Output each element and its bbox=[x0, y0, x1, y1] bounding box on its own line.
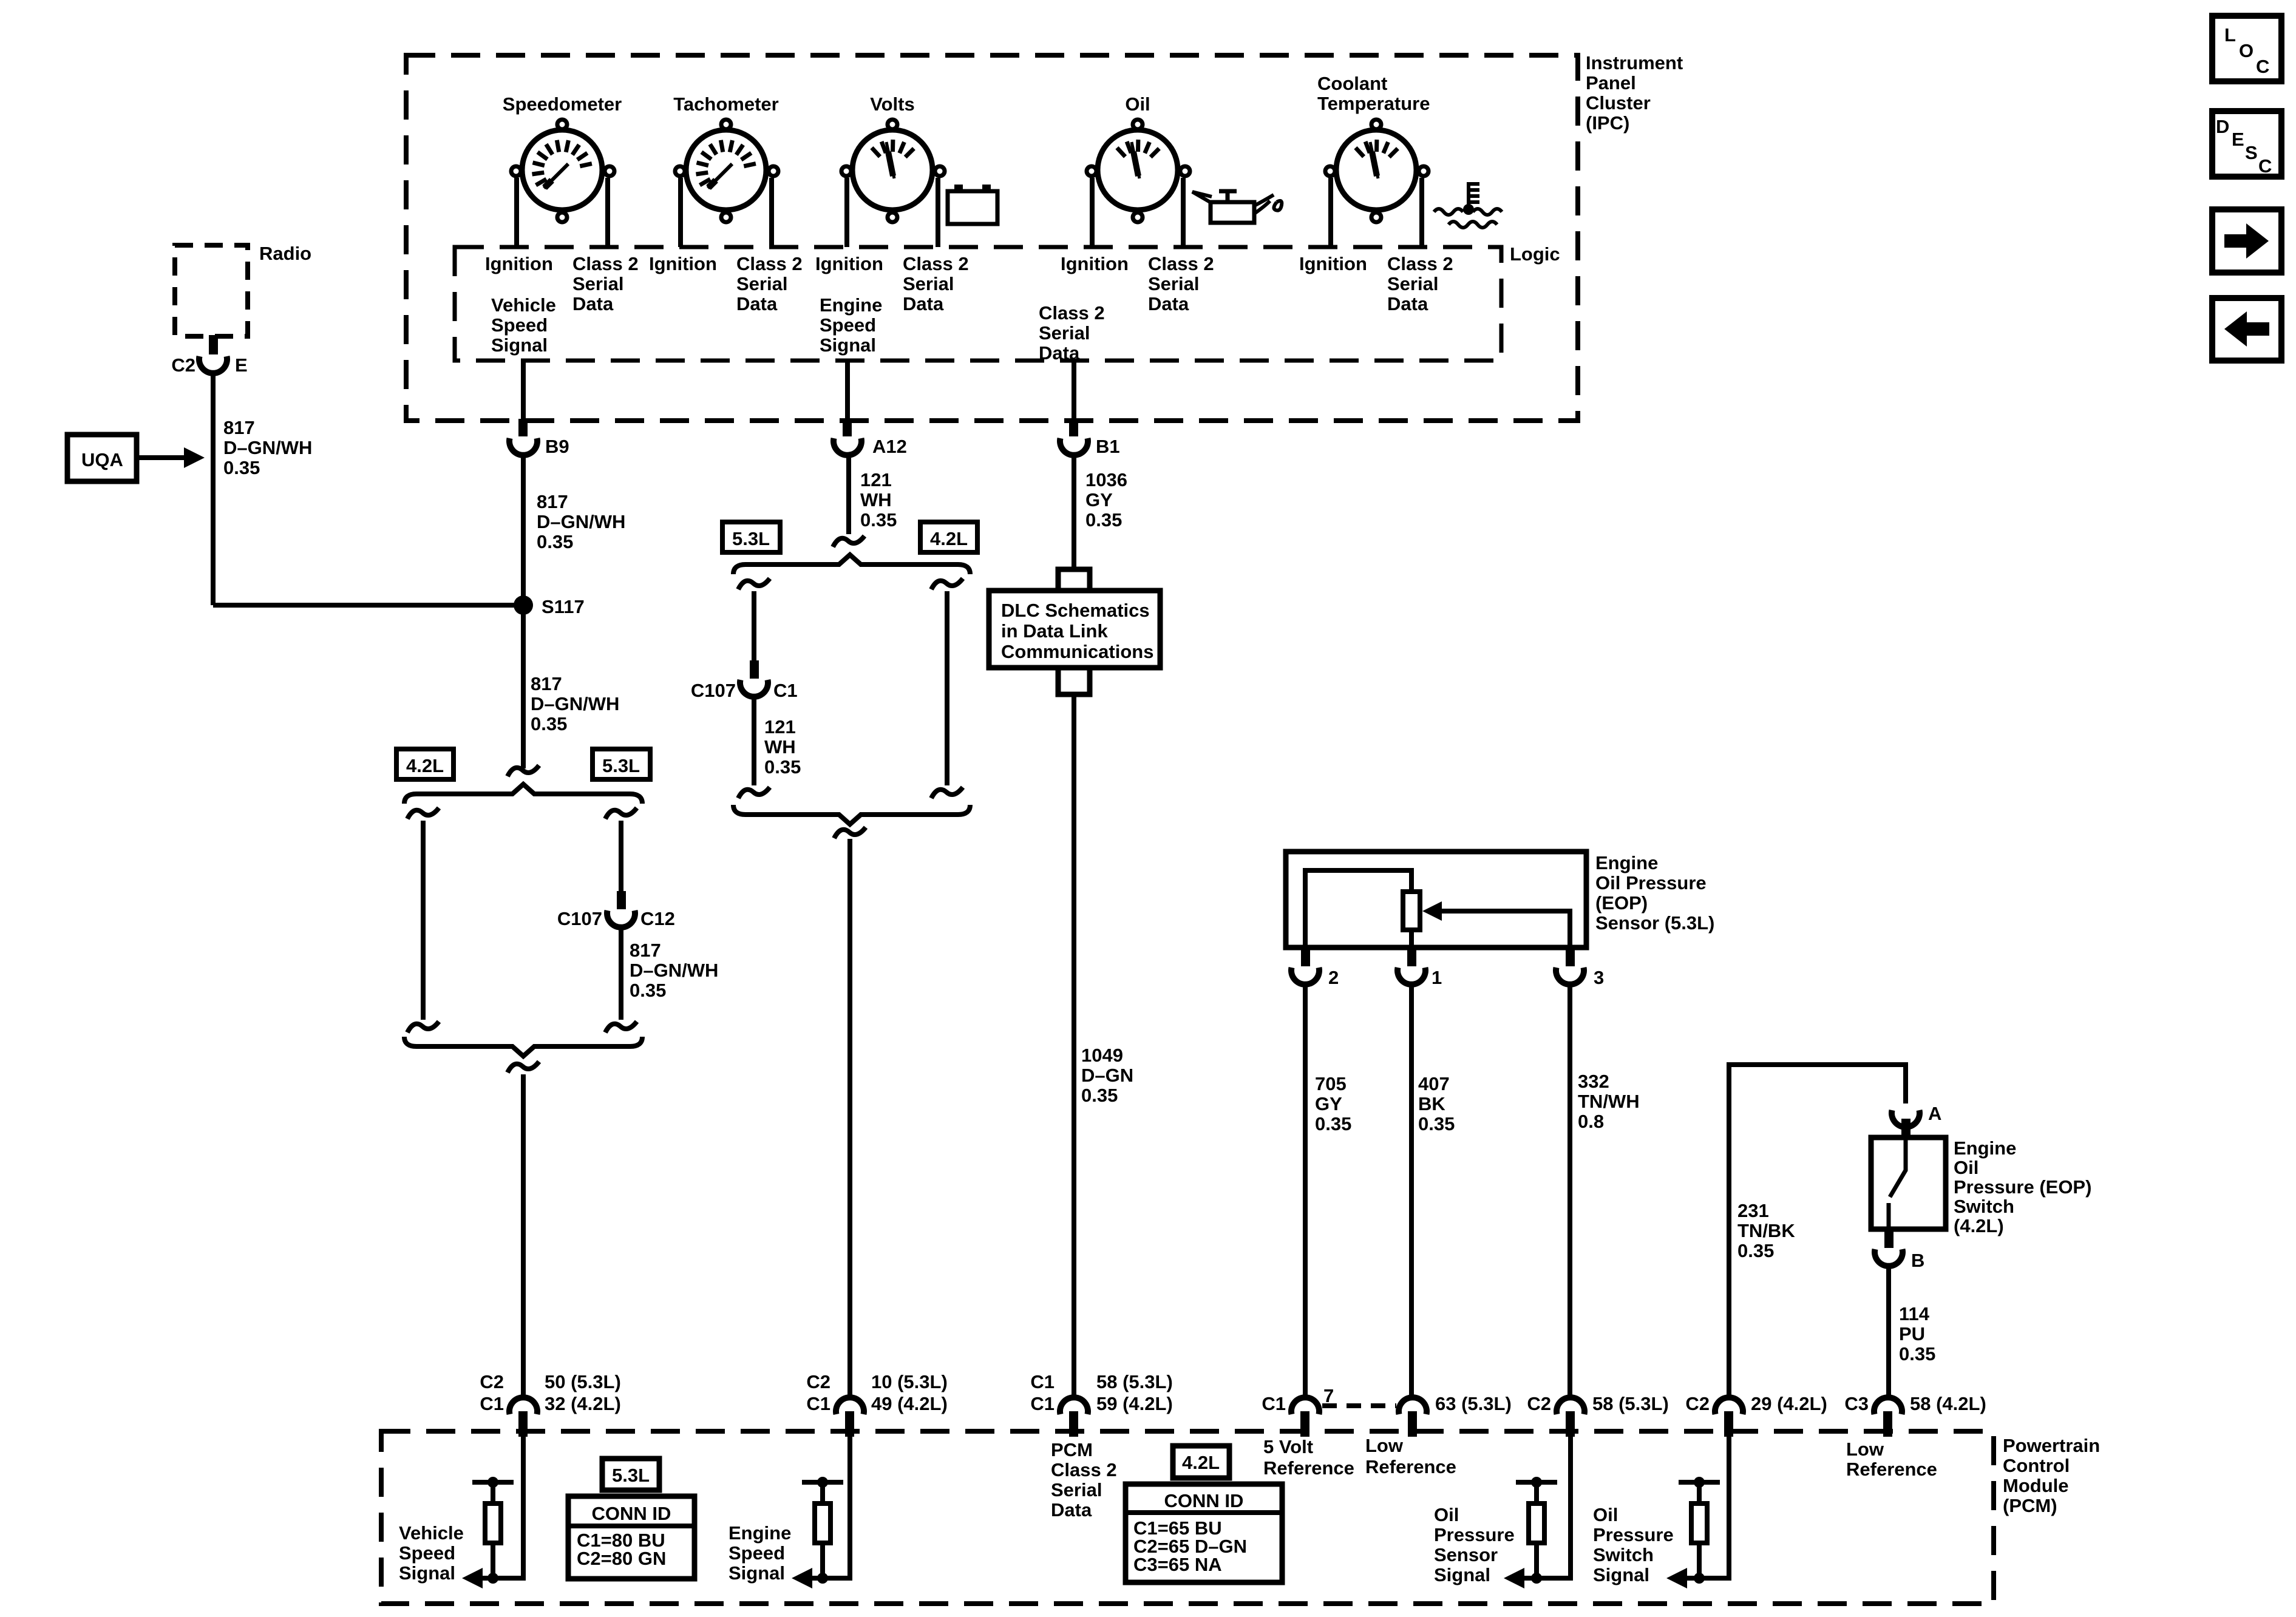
connector pin 1 bbox=[1398, 967, 1442, 988]
svg-text:C1: C1 bbox=[480, 1393, 504, 1414]
svg-text:58 (5.3L): 58 (5.3L) bbox=[1096, 1371, 1173, 1392]
svg-text:Control: Control bbox=[2003, 1455, 2070, 1476]
connector C107 pin C1 bbox=[691, 680, 798, 701]
svg-text:121: 121 bbox=[764, 716, 796, 737]
svg-text:A12: A12 bbox=[872, 436, 907, 457]
svg-text:3: 3 bbox=[1594, 967, 1604, 988]
DLC top bracket bbox=[1058, 569, 1090, 591]
svg-text:(4.2L): (4.2L) bbox=[1954, 1215, 2004, 1236]
svg-text:Low: Low bbox=[1365, 1435, 1404, 1456]
svg-text:C2: C2 bbox=[171, 354, 195, 376]
gauge Coolant Temperature bbox=[1317, 73, 1430, 247]
label 332 TN/WH 0.8 bbox=[1578, 1071, 1640, 1132]
svg-text:C12: C12 bbox=[640, 908, 675, 929]
resistor network (engine speed) bbox=[802, 1477, 843, 1584]
label Vehicle Speed Signal (IPC) bbox=[491, 294, 556, 356]
wire VSS inside PCM bbox=[469, 1437, 523, 1578]
svg-text:B9: B9 bbox=[545, 436, 569, 457]
svg-text:Oil Pressure: Oil Pressure bbox=[1595, 872, 1707, 893]
gauge Speedometer bbox=[503, 93, 622, 247]
connector pin 3 bbox=[1556, 967, 1604, 988]
svg-text:Serial: Serial bbox=[1387, 273, 1438, 294]
svg-text:332: 332 bbox=[1578, 1071, 1609, 1092]
svg-text:5.3L: 5.3L bbox=[612, 1465, 650, 1486]
connector pin stub 7 bbox=[1300, 1411, 1309, 1437]
svg-text:D–GN: D–GN bbox=[1081, 1065, 1133, 1086]
svg-text:Low: Low bbox=[1846, 1439, 1884, 1460]
wire 114 PU bbox=[1886, 1266, 1891, 1397]
svg-text:231: 231 bbox=[1737, 1200, 1769, 1221]
PCM label bbox=[2003, 1435, 2100, 1516]
svg-text:Data: Data bbox=[903, 293, 944, 314]
svg-text:B: B bbox=[1911, 1250, 1924, 1271]
svg-text:Data: Data bbox=[1051, 1499, 1092, 1520]
resistor network (oil pressure sensor) bbox=[1516, 1477, 1557, 1584]
svg-text:5 Volt: 5 Volt bbox=[1263, 1436, 1313, 1457]
svg-text:114: 114 bbox=[1899, 1303, 1930, 1324]
svg-text:D–GN/WH: D–GN/WH bbox=[531, 693, 619, 714]
wire ESS to PCM bbox=[847, 839, 852, 1397]
svg-text:C107: C107 bbox=[691, 680, 736, 701]
wire break below left split bbox=[508, 1062, 539, 1073]
svg-text:L: L bbox=[2224, 24, 2236, 46]
svg-text:Oil: Oil bbox=[1125, 93, 1150, 115]
svg-text:Speedometer: Speedometer bbox=[503, 93, 622, 115]
svg-text:Panel: Panel bbox=[1586, 72, 1636, 93]
svg-text:WH: WH bbox=[764, 736, 796, 758]
option box 5.3L (PCM left) bbox=[602, 1459, 659, 1490]
label 817 D-GN/WH 0.35 (S117) bbox=[531, 673, 619, 734]
svg-text:Class 2: Class 2 bbox=[736, 253, 803, 274]
svg-text:0.35: 0.35 bbox=[1737, 1240, 1774, 1261]
svg-text:50 (5.3L): 50 (5.3L) bbox=[545, 1371, 621, 1392]
wire oil pressure sensor signal inside PCM bbox=[1510, 1437, 1571, 1578]
svg-text:Vehicle: Vehicle bbox=[399, 1522, 464, 1544]
svg-text:Data: Data bbox=[572, 293, 614, 314]
svg-text:Ignition: Ignition bbox=[1299, 253, 1367, 274]
EOP sensor internal wiring bbox=[1305, 870, 1411, 947]
svg-text:Oil: Oil bbox=[1593, 1504, 1618, 1525]
label 121 WH 0.35 (C1) bbox=[764, 716, 801, 778]
wire 1049 DLC to PCM bbox=[1072, 694, 1076, 1397]
EOP sensor label bbox=[1595, 852, 1714, 934]
svg-text:Speed: Speed bbox=[399, 1542, 455, 1564]
connector pin 63 bbox=[1399, 1393, 1512, 1414]
svg-text:817: 817 bbox=[531, 673, 562, 694]
svg-text:Sensor: Sensor bbox=[1434, 1544, 1498, 1565]
wire oil pressure switch signal inside PCM bbox=[1673, 1437, 1729, 1578]
EOP sensor resistor bbox=[1403, 892, 1420, 930]
connector C3 pin 58 bbox=[1844, 1393, 1986, 1414]
svg-text:Coolant: Coolant bbox=[1317, 73, 1387, 94]
svg-text:E: E bbox=[2232, 129, 2244, 150]
svg-text:(IPC): (IPC) bbox=[1586, 112, 1629, 134]
wire 817 S117 down bbox=[521, 605, 526, 768]
wire Engine Speed Signal inside IPC bbox=[845, 361, 850, 420]
option box 4.2L (middle split) bbox=[920, 522, 977, 552]
wire break 4.2L branch top (middle) bbox=[931, 578, 963, 589]
svg-text:Serial: Serial bbox=[1051, 1479, 1102, 1500]
wire break 5.3L branch bottom (middle) bbox=[738, 787, 770, 798]
label 817 D-GN/WH 0.35 (C12) bbox=[630, 940, 718, 1001]
svg-text:D–GN/WH: D–GN/WH bbox=[223, 437, 312, 458]
svg-text:C3: C3 bbox=[1844, 1393, 1869, 1414]
wire 407 BK bbox=[1409, 985, 1414, 1397]
svg-text:0.8: 0.8 bbox=[1578, 1111, 1604, 1132]
left arrow icon box bbox=[2212, 298, 2281, 361]
UQA arrow bbox=[137, 447, 205, 468]
dashed jumper pin7 to pin63 bbox=[1322, 1403, 1396, 1408]
connector A12 bbox=[834, 436, 907, 457]
connector C2/C1 pins 50/32 bbox=[480, 1371, 620, 1414]
wire break below middle split bbox=[834, 827, 866, 838]
wire VSS to PCM bbox=[521, 1074, 526, 1397]
svg-text:CONN ID: CONN ID bbox=[592, 1503, 671, 1524]
svg-text:O: O bbox=[2239, 40, 2254, 61]
wire break 5.3L branch bottom bbox=[605, 1022, 637, 1032]
svg-text:0.35: 0.35 bbox=[223, 457, 260, 478]
svg-text:Reference: Reference bbox=[1365, 1456, 1456, 1477]
connector pin C107-C1 bbox=[750, 660, 759, 679]
wire 121 below C1 bbox=[752, 697, 756, 785]
svg-text:Pressure: Pressure bbox=[1593, 1524, 1674, 1545]
svg-text:BK: BK bbox=[1418, 1093, 1445, 1114]
connector C1 pin 7 bbox=[1262, 1385, 1334, 1414]
label 114 PU 0.35 bbox=[1899, 1303, 1935, 1364]
resistor network (oil pressure switch) bbox=[1679, 1477, 1720, 1584]
Engine Oil Pressure (EOP) Switch box bbox=[1871, 1137, 1946, 1229]
connector B1 bbox=[1060, 436, 1120, 457]
svg-text:GY: GY bbox=[1085, 489, 1113, 510]
label Class 2 Serial Data (B1 wire) bbox=[1039, 302, 1105, 364]
EOP switch label bbox=[1954, 1137, 2091, 1236]
svg-text:0.35: 0.35 bbox=[630, 980, 666, 1001]
svg-text:817: 817 bbox=[630, 940, 661, 961]
svg-text:C107: C107 bbox=[557, 908, 602, 929]
svg-text:Speed: Speed bbox=[729, 1542, 785, 1564]
svg-text:Signal: Signal bbox=[1434, 1564, 1490, 1585]
splice S117 bbox=[514, 595, 585, 617]
connector pin 3 stub bbox=[1566, 947, 1575, 966]
svg-text:Pressure (EOP): Pressure (EOP) bbox=[1954, 1176, 2091, 1198]
svg-text:UQA: UQA bbox=[81, 449, 123, 470]
svg-text:Ignition: Ignition bbox=[1061, 253, 1129, 274]
svg-text:Vehicle: Vehicle bbox=[491, 294, 556, 316]
svg-text:Engine: Engine bbox=[1595, 852, 1658, 873]
connector pin stub 29 bbox=[1724, 1411, 1733, 1437]
svg-text:0.35: 0.35 bbox=[1418, 1113, 1455, 1134]
svg-text:817: 817 bbox=[223, 417, 255, 438]
svg-text:A: A bbox=[1928, 1103, 1941, 1124]
Instrument Panel Cluster (IPC) dashed box bbox=[406, 55, 1578, 421]
brace bottom (left split) bbox=[404, 1037, 642, 1056]
connector pin B bbox=[1875, 1249, 1924, 1271]
svg-text:Engine: Engine bbox=[820, 294, 882, 316]
svg-text:C3=65 NA: C3=65 NA bbox=[1133, 1554, 1222, 1575]
svg-text:C1: C1 bbox=[1030, 1393, 1055, 1414]
svg-text:PU: PU bbox=[1899, 1323, 1925, 1344]
label PCM Class 2 Serial Data bbox=[1051, 1439, 1117, 1520]
label Class 2 Serial Data (Coolant) bbox=[1387, 253, 1453, 314]
wire 817 below C12 bbox=[619, 927, 623, 1020]
battery icon bbox=[948, 185, 997, 224]
svg-text:Signal: Signal bbox=[1593, 1564, 1649, 1585]
svg-text:Class 2: Class 2 bbox=[1039, 302, 1105, 324]
wire 231 TN/BK up and across bbox=[1729, 1065, 1906, 1397]
svg-text:0.35: 0.35 bbox=[1315, 1113, 1351, 1134]
gauge Volts bbox=[841, 93, 945, 247]
svg-text:1036: 1036 bbox=[1085, 469, 1127, 490]
svg-text:Signal: Signal bbox=[820, 334, 876, 356]
label Engine Speed Signal (IPC) bbox=[820, 294, 882, 356]
svg-text:C1: C1 bbox=[1262, 1393, 1286, 1414]
label Class 2 Serial Data (Speedometer) bbox=[572, 253, 639, 314]
svg-text:121: 121 bbox=[860, 469, 892, 490]
connector pin C2-E bbox=[209, 335, 218, 354]
connector pin 2 bbox=[1291, 967, 1339, 988]
label 5 Volt Reference bbox=[1263, 1436, 1354, 1479]
wire break above middle split bbox=[833, 536, 864, 547]
svg-text:0.35: 0.35 bbox=[537, 531, 573, 552]
svg-text:Ignition: Ignition bbox=[649, 253, 717, 274]
label 121 WH 0.35 (A12) bbox=[860, 469, 897, 531]
right arrow icon box bbox=[2212, 209, 2281, 273]
svg-text:Switch: Switch bbox=[1954, 1196, 2014, 1217]
svg-text:29 (4.2L): 29 (4.2L) bbox=[1751, 1393, 1827, 1414]
DLC bottom bracket bbox=[1058, 668, 1090, 694]
wire break 4.2L branch top bbox=[407, 808, 439, 819]
wire 121 A12 down bbox=[846, 455, 851, 534]
svg-text:Logic: Logic bbox=[1510, 243, 1560, 265]
connector C2 pin E bbox=[171, 354, 247, 376]
label Oil Pressure Sensor Signal bbox=[1434, 1504, 1515, 1585]
connector pin stub C3-58 bbox=[1883, 1411, 1892, 1437]
connector pin 2 stub bbox=[1301, 947, 1310, 966]
wire ESS inside PCM bbox=[798, 1437, 850, 1578]
wire 5.3L branch upper (left split) bbox=[619, 821, 623, 891]
svg-text:Cluster: Cluster bbox=[1586, 92, 1651, 114]
svg-text:Engine: Engine bbox=[729, 1522, 791, 1544]
connector pin stub 63 bbox=[1408, 1411, 1417, 1437]
svg-text:D: D bbox=[2216, 116, 2229, 137]
connector pin B9 bbox=[518, 419, 528, 436]
svg-text:E: E bbox=[235, 354, 248, 376]
svg-text:Signal: Signal bbox=[399, 1562, 455, 1584]
svg-text:Speed: Speed bbox=[820, 314, 876, 336]
label 1049 D-GN 0.35 bbox=[1081, 1045, 1133, 1106]
wire radio to S117 horizontal bbox=[213, 603, 523, 608]
label Vehicle Speed Signal (PCM) bbox=[399, 1522, 464, 1584]
DESC icon box bbox=[2212, 111, 2281, 177]
svg-text:Communications: Communications bbox=[1001, 641, 1153, 662]
svg-text:49 (4.2L): 49 (4.2L) bbox=[871, 1393, 948, 1414]
wire Class 2 Serial Data inside IPC bbox=[1072, 361, 1076, 420]
oil can icon bbox=[1211, 202, 1254, 223]
connector B9 bbox=[509, 436, 569, 457]
svg-text:7: 7 bbox=[1323, 1385, 1334, 1406]
connector pin B1 bbox=[1069, 419, 1078, 436]
brace top (middle split) bbox=[733, 555, 970, 574]
svg-text:817: 817 bbox=[537, 491, 568, 512]
svg-text:407: 407 bbox=[1418, 1073, 1450, 1094]
svg-text:C1: C1 bbox=[1030, 1371, 1055, 1392]
svg-text:Ignition: Ignition bbox=[815, 253, 883, 274]
connector C2 pin 29 bbox=[1685, 1393, 1827, 1414]
svg-text:5.3L: 5.3L bbox=[602, 755, 640, 776]
brace top (left split) bbox=[404, 784, 642, 804]
svg-text:C1: C1 bbox=[773, 680, 798, 701]
connector C2 pin 58 bbox=[1527, 1393, 1668, 1414]
label 817 D-GN/WH 0.35 (radio) bbox=[223, 417, 312, 478]
svg-text:Data: Data bbox=[1039, 342, 1080, 364]
svg-text:Class 2: Class 2 bbox=[572, 253, 639, 274]
connector pin stub 10/49 bbox=[845, 1411, 854, 1437]
svg-text:Oil: Oil bbox=[1954, 1157, 1978, 1178]
connector pin stub 58 bbox=[1566, 1411, 1575, 1437]
brace bottom (middle split) bbox=[733, 805, 970, 824]
svg-text:DLC Schematics: DLC Schematics bbox=[1001, 600, 1150, 621]
IPC label bbox=[1586, 52, 1683, 134]
svg-text:in Data Link: in Data Link bbox=[1001, 620, 1108, 642]
svg-text:Tachometer: Tachometer bbox=[673, 93, 778, 115]
UQA box bbox=[67, 435, 137, 481]
wire break symbol above left split bbox=[508, 765, 539, 776]
svg-text:CONN ID: CONN ID bbox=[1164, 1490, 1244, 1511]
oil pressure switch signal arrow bbox=[1666, 1568, 1687, 1588]
label Class 2 Serial Data (Oil) bbox=[1148, 253, 1214, 314]
svg-text:58 (4.2L): 58 (4.2L) bbox=[1910, 1393, 1986, 1414]
svg-text:Engine: Engine bbox=[1954, 1137, 2016, 1159]
svg-text:Serial: Serial bbox=[736, 273, 787, 294]
svg-text:C: C bbox=[2256, 56, 2269, 77]
label Oil Pressure Switch Signal bbox=[1593, 1504, 1674, 1585]
connector pin stub 58/59 bbox=[1069, 1411, 1078, 1437]
svg-text:Speed: Speed bbox=[491, 314, 548, 336]
svg-text:D–GN/WH: D–GN/WH bbox=[537, 511, 625, 532]
EOP switch blade bbox=[1889, 1137, 1906, 1229]
wire break 4.2L branch bottom bbox=[407, 1022, 439, 1032]
svg-text:WH: WH bbox=[860, 489, 892, 510]
label Low Reference (63) bbox=[1365, 1435, 1456, 1477]
svg-text:PCM: PCM bbox=[1051, 1439, 1093, 1460]
wire break 4.2L branch bottom (middle) bbox=[931, 787, 963, 798]
DLC Schematics box bbox=[989, 591, 1160, 668]
svg-text:Reference: Reference bbox=[1846, 1459, 1937, 1480]
svg-text:4.2L: 4.2L bbox=[930, 528, 968, 549]
label Class 2 Serial Data (Volts) bbox=[903, 253, 969, 314]
label 1036 GY 0.35 (B1) bbox=[1085, 469, 1127, 531]
svg-text:(PCM): (PCM) bbox=[2003, 1495, 2057, 1516]
svg-text:C2=80 GN: C2=80 GN bbox=[577, 1548, 666, 1569]
gauge Oil bbox=[1087, 93, 1190, 247]
svg-text:C2: C2 bbox=[806, 1371, 830, 1392]
label Engine Speed Signal (PCM) bbox=[729, 1522, 791, 1584]
wire 817 radio down bbox=[211, 373, 216, 605]
option box 5.3L (middle split) bbox=[722, 522, 780, 552]
label 817 D-GN/WH 0.35 (B9) bbox=[537, 491, 625, 552]
svg-text:2: 2 bbox=[1328, 967, 1339, 988]
svg-text:C2: C2 bbox=[1685, 1393, 1710, 1414]
connector pin A stub bbox=[1901, 1119, 1911, 1137]
svg-text:0.35: 0.35 bbox=[764, 756, 801, 778]
wire 1036 B1 down bbox=[1072, 455, 1076, 572]
svg-text:0.35: 0.35 bbox=[531, 713, 567, 734]
connector pin A bbox=[1892, 1103, 1941, 1127]
vehicle speed signal arrow bbox=[462, 1568, 483, 1588]
wire 332 TN/WH bbox=[1567, 985, 1572, 1397]
svg-text:Signal: Signal bbox=[729, 1562, 785, 1584]
wire 4.2L branch (left split) bbox=[421, 821, 426, 1020]
svg-text:C2: C2 bbox=[1527, 1393, 1551, 1414]
label 407 BK 0.35 bbox=[1418, 1073, 1455, 1134]
svg-text:0.35: 0.35 bbox=[1081, 1085, 1118, 1106]
CONN ID table (5.3L) bbox=[568, 1496, 695, 1579]
connector pin C107-C12 bbox=[617, 891, 626, 909]
Radio dashed box bbox=[175, 245, 248, 336]
engine speed signal arrow bbox=[792, 1568, 812, 1588]
svg-text:0.35: 0.35 bbox=[860, 509, 897, 531]
wire 5.3L branch upper (middle split) bbox=[752, 591, 756, 660]
svg-text:Volts: Volts bbox=[870, 93, 915, 115]
LOC icon box bbox=[2212, 16, 2281, 81]
svg-text:Serial: Serial bbox=[903, 273, 954, 294]
svg-text:Serial: Serial bbox=[1148, 273, 1199, 294]
connector C1/C1 pins 58/59 bbox=[1030, 1371, 1172, 1414]
svg-text:C: C bbox=[2258, 155, 2272, 177]
connector C107 pin C12 bbox=[557, 908, 675, 929]
wire break 5.3L branch top bbox=[605, 808, 637, 819]
svg-text:63 (5.3L): 63 (5.3L) bbox=[1435, 1393, 1512, 1414]
svg-text:0.35: 0.35 bbox=[1899, 1343, 1935, 1364]
svg-text:Class 2: Class 2 bbox=[1051, 1459, 1117, 1480]
svg-text:B1: B1 bbox=[1096, 436, 1120, 457]
svg-text:Sensor (5.3L): Sensor (5.3L) bbox=[1595, 912, 1714, 934]
svg-text:Reference: Reference bbox=[1263, 1457, 1354, 1479]
svg-text:Data: Data bbox=[1148, 293, 1189, 314]
connector pin 1 stub bbox=[1407, 947, 1416, 966]
oil pressure sensor signal arrow bbox=[1504, 1568, 1524, 1588]
svg-text:58 (5.3L): 58 (5.3L) bbox=[1592, 1393, 1669, 1414]
label Class 2 Serial Data (Tachometer) bbox=[736, 253, 803, 314]
svg-text:C1: C1 bbox=[806, 1393, 830, 1414]
connector pin B stub bbox=[1884, 1229, 1894, 1248]
svg-text:Data: Data bbox=[736, 293, 778, 314]
svg-text:59 (4.2L): 59 (4.2L) bbox=[1096, 1393, 1173, 1414]
svg-text:4.2L: 4.2L bbox=[406, 755, 444, 776]
CONN ID table (4.2L) bbox=[1126, 1484, 1282, 1582]
option box 4.2L (PCM) bbox=[1173, 1446, 1229, 1478]
label 231 TN/BK 0.35 bbox=[1737, 1200, 1795, 1261]
svg-text:Class 2: Class 2 bbox=[903, 253, 969, 274]
Logic dashed box bbox=[455, 247, 1501, 361]
Engine Oil Pressure (EOP) Sensor box bbox=[1286, 852, 1586, 947]
svg-text:S117: S117 bbox=[542, 596, 585, 617]
connector pin stub 50/32 bbox=[518, 1411, 528, 1437]
svg-text:5.3L: 5.3L bbox=[732, 528, 770, 549]
svg-text:Signal: Signal bbox=[491, 334, 548, 356]
svg-text:705: 705 bbox=[1315, 1073, 1347, 1094]
connector C2/C1 pins 10/49 bbox=[806, 1371, 947, 1414]
connector pin A12 bbox=[843, 419, 852, 436]
svg-text:Switch: Switch bbox=[1593, 1544, 1654, 1565]
svg-text:Class 2: Class 2 bbox=[1148, 253, 1214, 274]
svg-text:Class 2: Class 2 bbox=[1387, 253, 1453, 274]
svg-text:1049: 1049 bbox=[1081, 1045, 1123, 1066]
svg-text:(EOP): (EOP) bbox=[1595, 892, 1648, 914]
gauge Tachometer bbox=[673, 93, 778, 247]
Powertrain Control Module (PCM) dashed box bbox=[381, 1431, 1994, 1604]
wire 4.2L branch (middle split) bbox=[945, 591, 949, 785]
